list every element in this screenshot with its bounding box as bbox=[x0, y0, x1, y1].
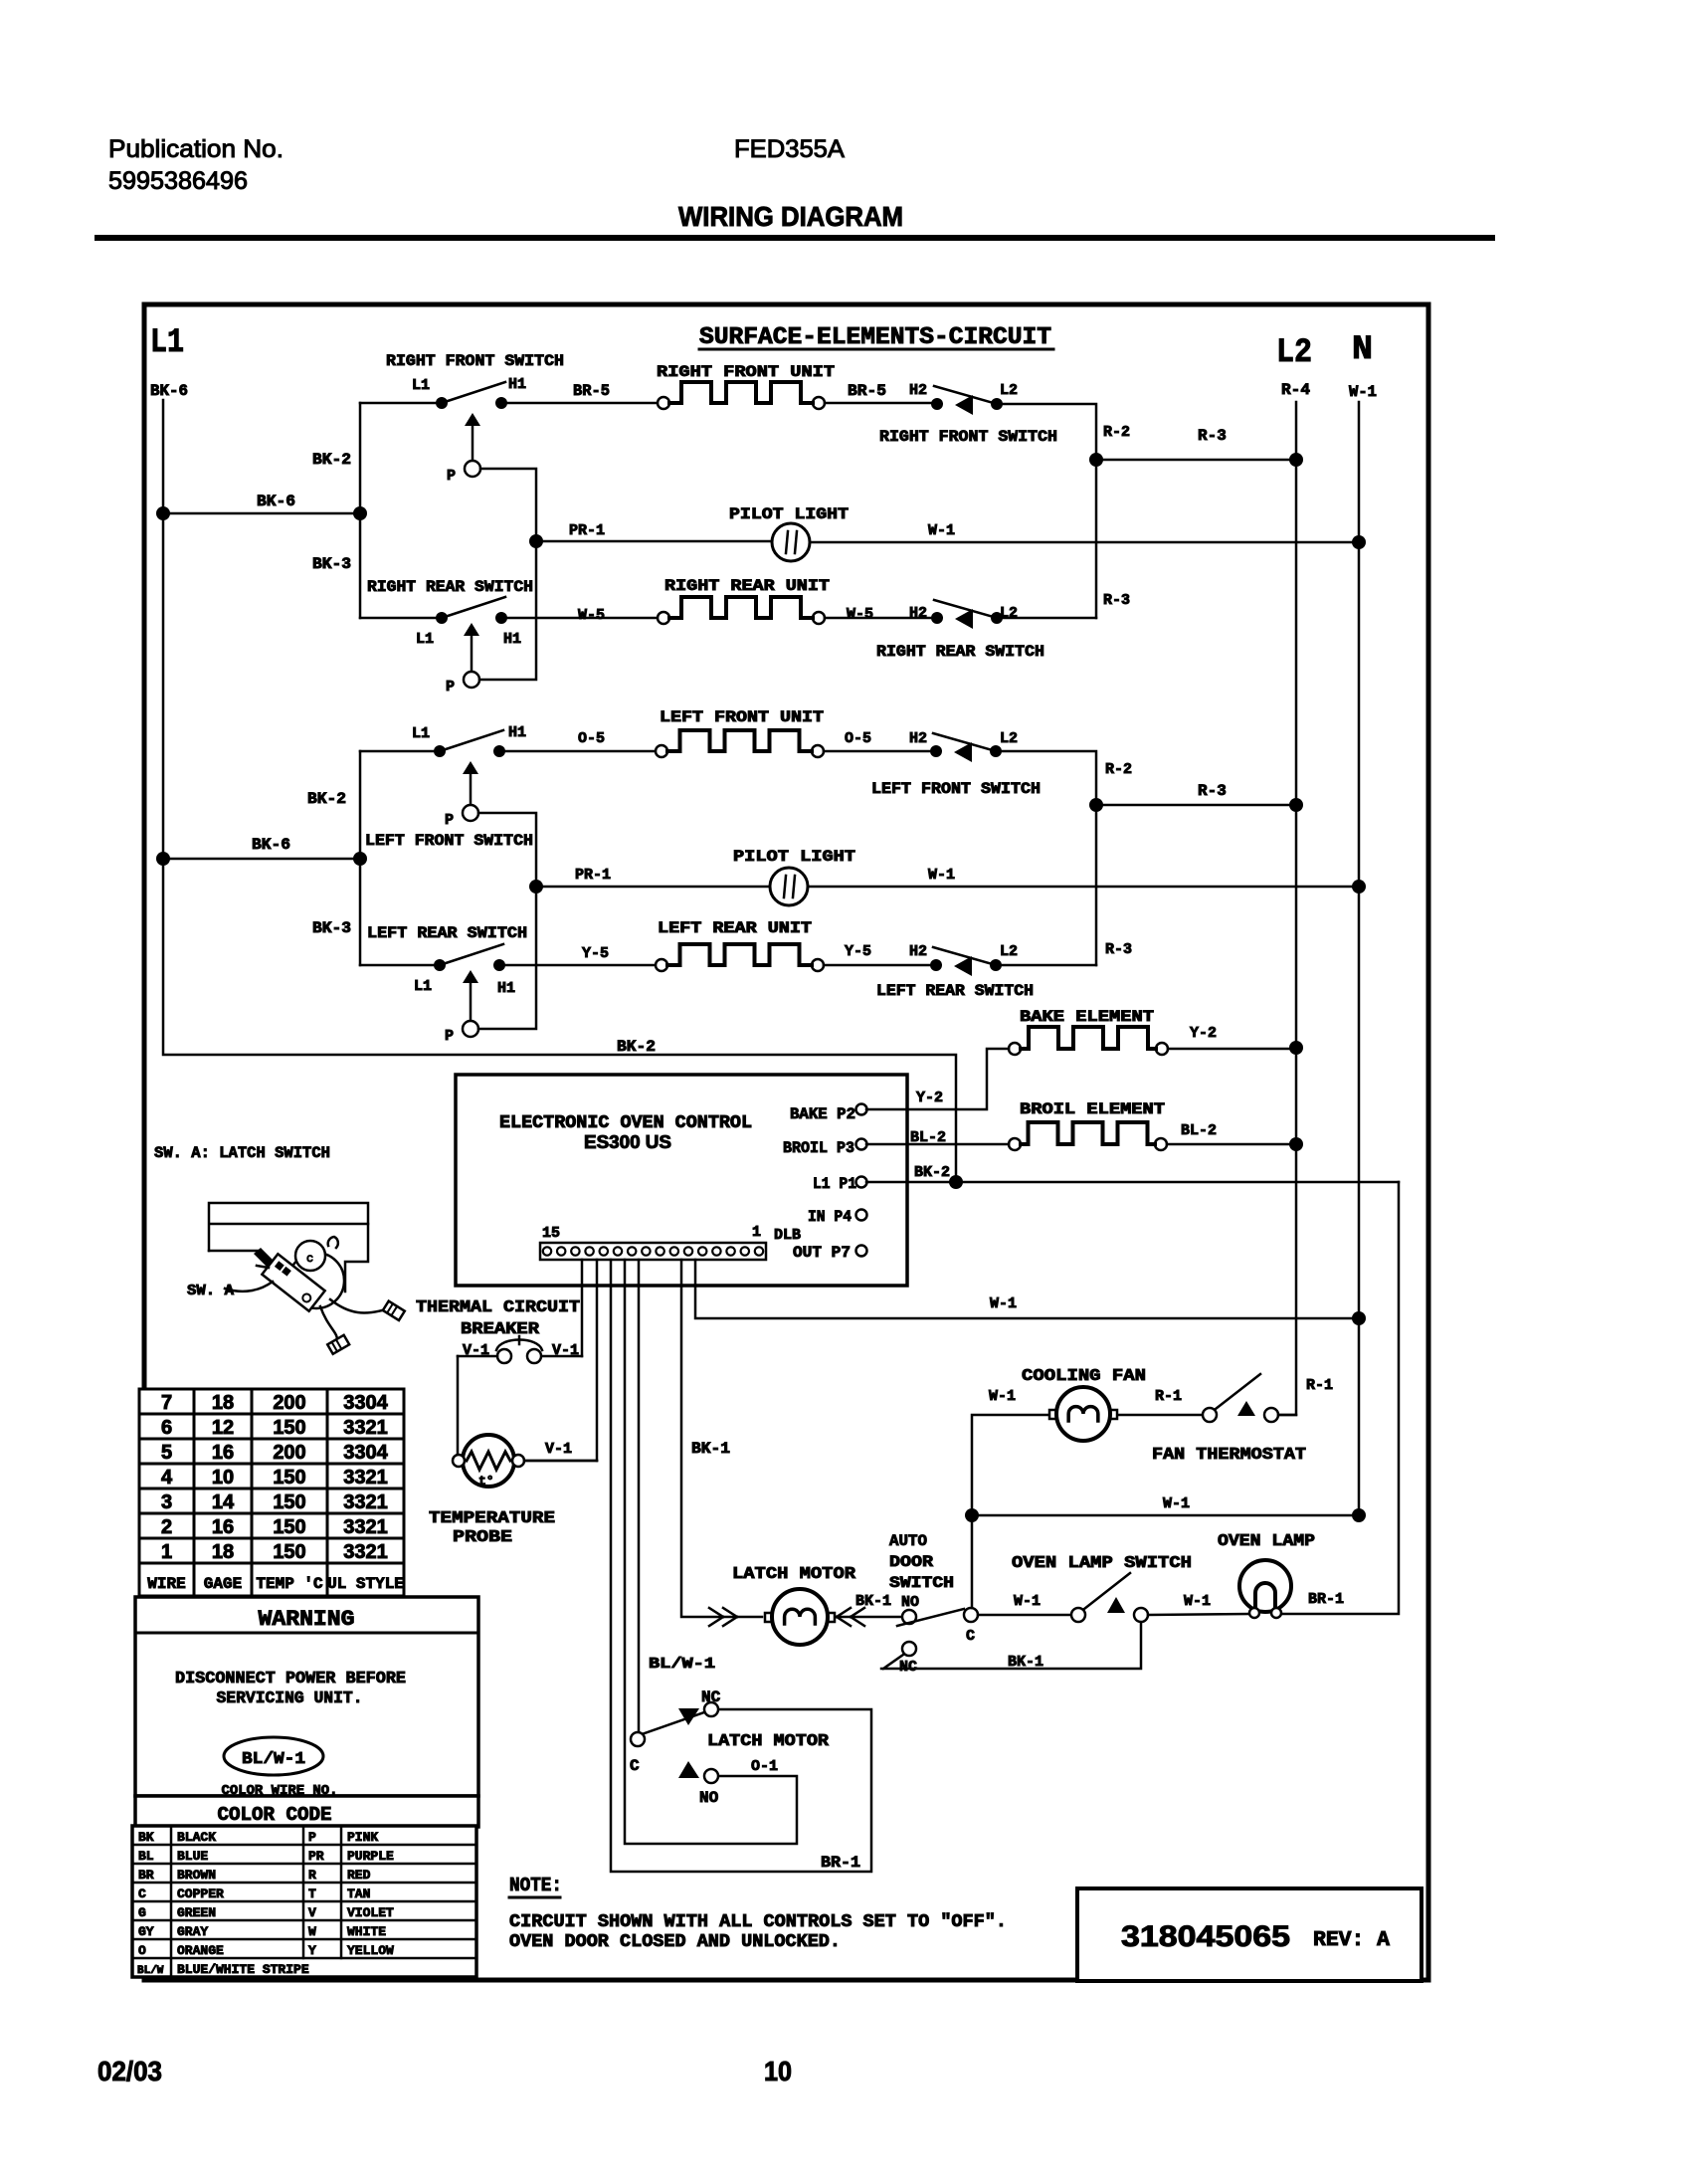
svg-text:L2: L2 bbox=[1276, 334, 1312, 372]
svg-text:5: 5 bbox=[161, 1442, 172, 1464]
svg-text:LATCH MOTOR: LATCH MOTOR bbox=[732, 1565, 856, 1584]
svg-text:3321: 3321 bbox=[343, 1516, 388, 1538]
svg-text:NO: NO bbox=[901, 1594, 919, 1611]
svg-text:t°: t° bbox=[478, 1474, 494, 1489]
svg-text:G: G bbox=[138, 1905, 146, 1920]
svg-text:P: P bbox=[445, 812, 454, 829]
svg-text:Y: Y bbox=[308, 1943, 316, 1958]
svg-text:1: 1 bbox=[161, 1541, 172, 1563]
svg-text:BL/W: BL/W bbox=[137, 1965, 164, 1977]
svg-text:BK-1: BK-1 bbox=[691, 1440, 730, 1458]
svg-text:LEFT REAR SWITCH: LEFT REAR SWITCH bbox=[367, 924, 527, 942]
svg-text:150: 150 bbox=[273, 1467, 305, 1489]
svg-text:200: 200 bbox=[273, 1392, 305, 1414]
svg-text:CIRCUIT SHOWN WITH ALL CONTROL: CIRCUIT SHOWN WITH ALL CONTROLS SET TO "… bbox=[509, 1912, 1007, 1932]
svg-text:2: 2 bbox=[161, 1516, 172, 1538]
svg-text:BK-6: BK-6 bbox=[257, 493, 295, 510]
svg-text:150: 150 bbox=[273, 1541, 305, 1563]
svg-text:BROIL P3: BROIL P3 bbox=[783, 1139, 854, 1157]
svg-text:WARNING: WARNING bbox=[259, 1607, 355, 1632]
svg-text:W-1: W-1 bbox=[990, 1295, 1017, 1312]
svg-text:Y-2: Y-2 bbox=[1190, 1025, 1217, 1042]
svg-text:L1 P1: L1 P1 bbox=[813, 1175, 856, 1193]
svg-text:BR-5: BR-5 bbox=[573, 382, 610, 400]
svg-text:18: 18 bbox=[212, 1541, 234, 1563]
svg-text:BR-1: BR-1 bbox=[1308, 1591, 1344, 1608]
svg-text:BLACK: BLACK bbox=[177, 1830, 216, 1845]
svg-text:10: 10 bbox=[764, 2056, 792, 2086]
svg-text:O-5: O-5 bbox=[845, 730, 871, 747]
svg-text:W-1: W-1 bbox=[1163, 1495, 1190, 1512]
svg-text:ES300 US: ES300 US bbox=[584, 1132, 671, 1152]
svg-text:200: 200 bbox=[273, 1442, 305, 1464]
svg-text:FED355A: FED355A bbox=[734, 135, 845, 163]
svg-text:H2: H2 bbox=[909, 943, 927, 960]
svg-text:GRAY: GRAY bbox=[177, 1924, 208, 1939]
svg-text:Y-5: Y-5 bbox=[845, 943, 871, 960]
svg-text:R-3: R-3 bbox=[1198, 782, 1227, 800]
svg-text:Y-5: Y-5 bbox=[582, 945, 609, 962]
svg-text:BK-2: BK-2 bbox=[914, 1164, 950, 1181]
svg-text:BLUE: BLUE bbox=[177, 1849, 208, 1864]
svg-text:OVEN LAMP SWITCH: OVEN LAMP SWITCH bbox=[1012, 1554, 1192, 1573]
svg-text:BROIL ELEMENT: BROIL ELEMENT bbox=[1020, 1100, 1165, 1118]
svg-text:W-1: W-1 bbox=[1184, 1593, 1211, 1610]
svg-text:PILOT LIGHT: PILOT LIGHT bbox=[733, 848, 855, 866]
svg-text:R-1: R-1 bbox=[1155, 1388, 1182, 1405]
svg-text:H1: H1 bbox=[508, 724, 526, 741]
svg-text:V-1: V-1 bbox=[545, 1441, 572, 1458]
svg-text:DISCONNECT POWER BEFORE: DISCONNECT POWER BEFORE bbox=[175, 1670, 406, 1688]
svg-text:COOLING FAN: COOLING FAN bbox=[1022, 1367, 1146, 1386]
svg-text:DOOR: DOOR bbox=[889, 1553, 933, 1571]
svg-text:Y-2: Y-2 bbox=[916, 1090, 943, 1106]
svg-text:TAN: TAN bbox=[347, 1886, 370, 1901]
svg-text:7: 7 bbox=[161, 1392, 172, 1414]
svg-text:BK-6: BK-6 bbox=[252, 836, 290, 854]
svg-text:RIGHT FRONT SWITCH: RIGHT FRONT SWITCH bbox=[386, 352, 564, 370]
svg-text:318045065: 318045065 bbox=[1121, 1920, 1290, 1953]
svg-text:c: c bbox=[306, 1252, 313, 1266]
svg-text:OVEN LAMP: OVEN LAMP bbox=[1218, 1532, 1315, 1551]
svg-text:AUTO: AUTO bbox=[889, 1532, 927, 1550]
svg-text:6: 6 bbox=[161, 1417, 172, 1439]
svg-text:Publication No.: Publication No. bbox=[108, 135, 284, 163]
svg-text:16: 16 bbox=[212, 1516, 234, 1538]
svg-text:SW. A: LATCH SWITCH: SW. A: LATCH SWITCH bbox=[154, 1144, 330, 1162]
svg-text:L1: L1 bbox=[150, 324, 184, 362]
svg-text:WHITE: WHITE bbox=[347, 1924, 386, 1939]
svg-text:16: 16 bbox=[212, 1442, 234, 1464]
svg-text:P: P bbox=[447, 468, 456, 485]
svg-text:H1: H1 bbox=[497, 980, 515, 997]
svg-text:GAGE: GAGE bbox=[204, 1575, 242, 1593]
svg-text:OUT P7: OUT P7 bbox=[793, 1244, 851, 1262]
svg-text:BK-1: BK-1 bbox=[855, 1593, 891, 1610]
svg-text:H1: H1 bbox=[508, 376, 526, 393]
svg-text:V: V bbox=[308, 1905, 316, 1920]
svg-text:L2: L2 bbox=[1000, 730, 1018, 747]
svg-text:W-5: W-5 bbox=[847, 606, 873, 623]
svg-text:BL/W-1: BL/W-1 bbox=[649, 1656, 715, 1673]
svg-text:R: R bbox=[308, 1868, 316, 1883]
svg-text:WIRE: WIRE bbox=[147, 1575, 185, 1593]
svg-text:NOTE:: NOTE: bbox=[509, 1875, 562, 1896]
svg-text:IN P4: IN P4 bbox=[808, 1208, 852, 1226]
svg-text:L1: L1 bbox=[414, 978, 432, 995]
svg-text:L2: L2 bbox=[1000, 605, 1018, 622]
svg-text:1: 1 bbox=[752, 1224, 761, 1241]
svg-text:R-3: R-3 bbox=[1198, 427, 1227, 445]
svg-text:SW. A: SW. A bbox=[187, 1283, 234, 1299]
svg-text:O-1: O-1 bbox=[751, 1758, 778, 1775]
svg-text:150: 150 bbox=[273, 1491, 305, 1513]
svg-text:BK-2: BK-2 bbox=[307, 790, 346, 808]
svg-text:L2: L2 bbox=[1000, 382, 1018, 399]
svg-text:LEFT REAR UNIT: LEFT REAR UNIT bbox=[658, 919, 812, 937]
svg-text:W-5: W-5 bbox=[578, 607, 605, 624]
svg-text:W-1: W-1 bbox=[1349, 383, 1377, 401]
svg-text:PROBE: PROBE bbox=[453, 1528, 512, 1547]
svg-text:W-1: W-1 bbox=[1014, 1593, 1041, 1610]
svg-text:RIGHT REAR UNIT: RIGHT REAR UNIT bbox=[664, 577, 830, 595]
svg-text:BREAKER: BREAKER bbox=[461, 1320, 540, 1339]
svg-text:THERMAL CIRCUIT: THERMAL CIRCUIT bbox=[416, 1298, 580, 1317]
svg-text:3321: 3321 bbox=[343, 1417, 388, 1439]
svg-text:SERVICING UNIT.: SERVICING UNIT. bbox=[217, 1689, 363, 1708]
svg-text:ELECTRONIC OVEN CONTROL: ELECTRONIC OVEN CONTROL bbox=[499, 1113, 752, 1133]
svg-text:O-5: O-5 bbox=[578, 730, 605, 747]
svg-text:3304: 3304 bbox=[343, 1442, 388, 1464]
svg-text:BL/W-1: BL/W-1 bbox=[242, 1750, 305, 1769]
svg-text:3321: 3321 bbox=[343, 1467, 388, 1489]
svg-text:BR: BR bbox=[138, 1868, 154, 1883]
svg-text:R-3: R-3 bbox=[1103, 592, 1130, 609]
svg-text:5995386496: 5995386496 bbox=[108, 167, 248, 195]
svg-text:T: T bbox=[308, 1886, 316, 1901]
svg-text:W: W bbox=[308, 1924, 316, 1939]
svg-text:COLOR CODE: COLOR CODE bbox=[218, 1804, 332, 1826]
svg-text:3: 3 bbox=[161, 1491, 172, 1513]
svg-text:BL-2: BL-2 bbox=[910, 1129, 946, 1146]
svg-text:LEFT FRONT SWITCH: LEFT FRONT SWITCH bbox=[871, 780, 1041, 798]
svg-text:RIGHT FRONT SWITCH: RIGHT FRONT SWITCH bbox=[879, 428, 1057, 446]
svg-text:3304: 3304 bbox=[343, 1392, 388, 1414]
svg-text:3321: 3321 bbox=[343, 1541, 388, 1563]
svg-text:R-1: R-1 bbox=[1306, 1377, 1333, 1394]
svg-text:LEFT REAR SWITCH: LEFT REAR SWITCH bbox=[876, 982, 1034, 1000]
svg-text:N: N bbox=[1352, 331, 1373, 369]
svg-text:C: C bbox=[966, 1628, 975, 1645]
svg-text:BR-5: BR-5 bbox=[848, 382, 886, 400]
svg-text:P: P bbox=[445, 1028, 454, 1045]
svg-text:LATCH MOTOR: LATCH MOTOR bbox=[707, 1732, 830, 1751]
svg-text:NC: NC bbox=[899, 1659, 917, 1676]
svg-text:GY: GY bbox=[138, 1924, 154, 1939]
svg-text:BK-3: BK-3 bbox=[312, 555, 351, 573]
svg-text:FAN THERMOSTAT: FAN THERMOSTAT bbox=[1152, 1446, 1306, 1465]
svg-text:BK-1: BK-1 bbox=[1008, 1654, 1043, 1671]
svg-text:W-1: W-1 bbox=[989, 1388, 1016, 1405]
svg-text:RIGHT REAR SWITCH: RIGHT REAR SWITCH bbox=[367, 578, 533, 596]
svg-text:PURPLE: PURPLE bbox=[347, 1849, 394, 1864]
svg-text:14: 14 bbox=[212, 1491, 235, 1513]
svg-text:DLB: DLB bbox=[774, 1227, 801, 1244]
svg-text:R-2: R-2 bbox=[1103, 424, 1130, 441]
svg-text:BAKE P2: BAKE P2 bbox=[790, 1105, 855, 1123]
svg-text:H1: H1 bbox=[503, 631, 521, 648]
svg-text:4: 4 bbox=[161, 1467, 173, 1489]
svg-text:REV: A: REV: A bbox=[1313, 1929, 1390, 1952]
svg-text:RIGHT FRONT UNIT: RIGHT FRONT UNIT bbox=[657, 363, 835, 381]
svg-text:BK-6: BK-6 bbox=[150, 382, 188, 400]
svg-text:L2: L2 bbox=[1000, 943, 1018, 960]
svg-text:18: 18 bbox=[212, 1392, 234, 1414]
svg-text:RED: RED bbox=[347, 1868, 371, 1883]
svg-text:10: 10 bbox=[212, 1467, 234, 1489]
svg-text:H2: H2 bbox=[909, 382, 927, 399]
svg-text:LEFT FRONT SWITCH: LEFT FRONT SWITCH bbox=[365, 832, 533, 850]
svg-text:LEFT FRONT UNIT: LEFT FRONT UNIT bbox=[660, 708, 824, 726]
svg-text:12: 12 bbox=[212, 1417, 234, 1439]
svg-text:RIGHT REAR SWITCH: RIGHT REAR SWITCH bbox=[876, 643, 1044, 661]
svg-text:BL-2: BL-2 bbox=[1181, 1122, 1217, 1139]
svg-text:O: O bbox=[138, 1943, 146, 1958]
svg-text:VIOLET: VIOLET bbox=[347, 1905, 394, 1920]
svg-text:PR-1: PR-1 bbox=[569, 522, 605, 539]
svg-text:150: 150 bbox=[273, 1516, 305, 1538]
svg-text:H2: H2 bbox=[909, 605, 927, 622]
svg-text:BK: BK bbox=[138, 1830, 154, 1845]
svg-text:15: 15 bbox=[542, 1225, 560, 1242]
svg-text:SWITCH: SWITCH bbox=[889, 1574, 954, 1592]
svg-text:W-1: W-1 bbox=[928, 522, 955, 539]
svg-text:V-1: V-1 bbox=[552, 1342, 579, 1359]
svg-text:P: P bbox=[446, 679, 455, 695]
svg-text:BAKE ELEMENT: BAKE ELEMENT bbox=[1020, 1008, 1154, 1026]
svg-text:WIRING DIAGRAM: WIRING DIAGRAM bbox=[678, 201, 903, 232]
svg-text:R-3: R-3 bbox=[1105, 941, 1132, 958]
svg-text:BROWN: BROWN bbox=[177, 1868, 216, 1883]
svg-text:C: C bbox=[138, 1886, 146, 1901]
svg-text:BL: BL bbox=[138, 1849, 154, 1864]
svg-text:YELLOW: YELLOW bbox=[347, 1943, 394, 1958]
svg-text:BK-2: BK-2 bbox=[312, 451, 351, 469]
svg-text:PR: PR bbox=[308, 1849, 324, 1864]
svg-text:02/03: 02/03 bbox=[97, 2056, 162, 2086]
svg-text:GREEN: GREEN bbox=[177, 1905, 216, 1920]
svg-text:SURFACE-ELEMENTS-CIRCUIT: SURFACE-ELEMENTS-CIRCUIT bbox=[699, 324, 1051, 351]
svg-text:L1: L1 bbox=[416, 631, 434, 648]
svg-text:R-2: R-2 bbox=[1105, 761, 1132, 778]
svg-text:BK-3: BK-3 bbox=[312, 919, 351, 937]
svg-text:R-4: R-4 bbox=[1281, 381, 1310, 399]
svg-text:COPPER: COPPER bbox=[177, 1886, 224, 1901]
svg-text:C: C bbox=[630, 1757, 640, 1775]
svg-text:PILOT LIGHT: PILOT LIGHT bbox=[729, 505, 849, 523]
svg-text:L1: L1 bbox=[412, 725, 430, 742]
svg-text:OVEN DOOR CLOSED AND UNLOCKED.: OVEN DOOR CLOSED AND UNLOCKED. bbox=[509, 1932, 841, 1952]
svg-text:P: P bbox=[308, 1830, 316, 1845]
svg-text:UL STYLE: UL STYLE bbox=[327, 1575, 404, 1593]
svg-text:150: 150 bbox=[273, 1417, 305, 1439]
svg-text:PINK: PINK bbox=[347, 1830, 378, 1845]
svg-text:BLUE/WHITE STRIPE: BLUE/WHITE STRIPE bbox=[177, 1962, 309, 1977]
svg-text:TEMPERATURE: TEMPERATURE bbox=[429, 1509, 555, 1528]
svg-text:BK-2: BK-2 bbox=[617, 1038, 656, 1056]
svg-text:H2: H2 bbox=[909, 730, 927, 747]
svg-text:W-1: W-1 bbox=[928, 867, 955, 884]
svg-text:BR-1: BR-1 bbox=[821, 1854, 860, 1872]
svg-text:L1: L1 bbox=[412, 377, 430, 394]
svg-text:TEMP 'C: TEMP 'C bbox=[256, 1575, 323, 1593]
svg-text:ORANGE: ORANGE bbox=[177, 1943, 224, 1958]
svg-text:3321: 3321 bbox=[343, 1491, 388, 1513]
svg-text:PR-1: PR-1 bbox=[575, 867, 611, 884]
svg-text:NO: NO bbox=[699, 1789, 719, 1807]
